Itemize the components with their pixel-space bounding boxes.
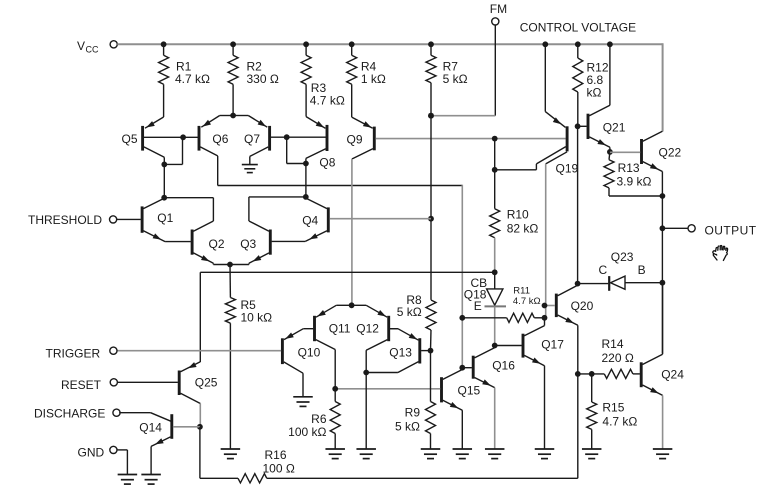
- transistor Q11: [313, 316, 316, 341]
- transistor Q7: [268, 126, 271, 151]
- svg-text:C: C: [599, 263, 608, 277]
- resistor R12 6.8 k: [577, 44, 579, 58]
- resistor R5 10 k: [229, 265, 231, 298]
- transistor Q15: [440, 377, 443, 402]
- wire FM to divider: [431, 115, 495, 117]
- svg-text:220 Ω: 220 Ω: [602, 351, 634, 365]
- svg-text:R15: R15: [602, 401, 624, 415]
- ground: [535, 448, 555, 450]
- resistor R2 330: [232, 44, 234, 55]
- svg-text:R14: R14: [602, 337, 624, 351]
- svg-text:Q5: Q5: [122, 132, 138, 146]
- transistor Q9: [373, 127, 376, 151]
- svg-text:CC: CC: [86, 45, 99, 55]
- ground: [485, 448, 505, 450]
- node OUTPUT terminal: [662, 227, 688, 229]
- transistor Q8: [326, 125, 329, 151]
- resistor R16 100: [199, 427, 201, 479]
- transistor Q24: [640, 362, 643, 387]
- svg-text:THRESHOLD: THRESHOLD: [28, 213, 102, 227]
- svg-text:Q16: Q16: [492, 359, 515, 373]
- svg-text:4.7 kΩ: 4.7 kΩ: [175, 72, 210, 86]
- svg-text:TRIGGER: TRIGGER: [46, 347, 101, 361]
- svg-text:R11: R11: [513, 286, 530, 297]
- resistor R13 3.9 k: [608, 152, 611, 160]
- ground: [293, 396, 313, 398]
- ground: [582, 448, 602, 450]
- svg-text:kΩ: kΩ: [587, 86, 602, 100]
- ground: [653, 448, 673, 450]
- svg-text:100 kΩ: 100 kΩ: [288, 425, 326, 439]
- svg-text:Q6: Q6: [212, 132, 228, 146]
- transistor Q20: [555, 294, 558, 318]
- svg-text:330 Ω: 330 Ω: [247, 72, 279, 86]
- svg-text:R13: R13: [618, 161, 640, 175]
- svg-text:100 Ω: 100 Ω: [263, 462, 295, 476]
- resistor R11 4.7 k: [459, 315, 465, 321]
- svg-text:R9: R9: [405, 405, 421, 419]
- diode Q23: [578, 283, 609, 285]
- svg-text:Q7: Q7: [244, 132, 260, 146]
- svg-text:Q9: Q9: [347, 133, 363, 147]
- wire gray net to R11/Q15: [461, 185, 463, 318]
- wire R10 bottom to Q25: [200, 271, 494, 273]
- transistor Q16: [472, 356, 475, 379]
- transistor Q10: [281, 338, 284, 364]
- svg-text:E: E: [474, 299, 482, 313]
- wire output net vertical: [661, 196, 663, 228]
- svg-text:B: B: [638, 263, 646, 277]
- ground: [118, 474, 137, 476]
- svg-text:Q24: Q24: [661, 367, 684, 381]
- svg-text:82 kΩ: 82 kΩ: [507, 222, 539, 236]
- resistor R15 4.7 k: [591, 374, 593, 402]
- resistor R10 82 k: [492, 136, 498, 142]
- svg-text:Q1: Q1: [157, 211, 173, 225]
- svg-text:Q13: Q13: [389, 346, 412, 360]
- resistor R1 4.7 k: [163, 44, 165, 55]
- node VCC terminal: [110, 41, 117, 48]
- svg-text:CONTROL VOLTAGE: CONTROL VOLTAGE: [520, 20, 636, 34]
- svg-text:GND: GND: [78, 445, 105, 459]
- transistor Q3: [269, 230, 272, 255]
- transistor Q2: [191, 230, 194, 255]
- svg-text:V: V: [77, 39, 85, 53]
- wire Q21 base to Q20 collector: [577, 126, 579, 283]
- svg-text:Q11: Q11: [329, 322, 351, 336]
- transistor Q25: [178, 371, 181, 396]
- ground: [242, 164, 258, 166]
- svg-text:Q8: Q8: [319, 156, 335, 170]
- resistor R4 1 k: [351, 44, 353, 55]
- svg-text:FM: FM: [490, 2, 507, 16]
- transistor Q21: [587, 114, 590, 139]
- resistor R7 5 k: [430, 44, 432, 55]
- svg-text:1 kΩ: 1 kΩ: [361, 72, 386, 86]
- transistor Q4: [327, 207, 330, 232]
- transistor Q17: [522, 334, 525, 358]
- svg-text:Q14: Q14: [139, 421, 162, 435]
- svg-text:Q20: Q20: [571, 299, 594, 313]
- svg-text:RESET: RESET: [61, 378, 102, 392]
- svg-text:5 kΩ: 5 kΩ: [397, 305, 422, 319]
- svg-text:4.7 kΩ: 4.7 kΩ: [310, 94, 345, 108]
- ground: [221, 448, 241, 450]
- svg-text:Q2: Q2: [209, 237, 225, 251]
- svg-text:Q15: Q15: [458, 384, 481, 398]
- svg-text:Q17: Q17: [541, 338, 564, 352]
- svg-text:3.9 kΩ: 3.9 kΩ: [617, 175, 652, 189]
- svg-text:OUTPUT: OUTPUT: [705, 223, 757, 237]
- transistor Q1: [141, 206, 144, 232]
- ground: [325, 448, 345, 450]
- svg-text:Q12: Q12: [356, 322, 379, 336]
- svg-text:4.7 kΩ: 4.7 kΩ: [513, 296, 541, 307]
- transistor Q5: [141, 126, 144, 151]
- svg-text:Q19: Q19: [556, 162, 579, 176]
- ground: [141, 474, 161, 476]
- svg-text:Q3: Q3: [240, 237, 256, 251]
- wire VCC rail: [117, 43, 662, 45]
- svg-text:R10: R10: [507, 208, 529, 222]
- resistor R6 100 k: [334, 389, 336, 402]
- resistor R3 4.7 k: [305, 44, 307, 55]
- svg-text:Q22: Q22: [659, 146, 682, 160]
- ground: [356, 448, 376, 450]
- svg-text:Q23: Q23: [611, 250, 634, 264]
- transistor Q12: [387, 316, 390, 341]
- ground: [421, 448, 441, 450]
- transistor Q19: [566, 126, 569, 151]
- svg-text:Q10: Q10: [298, 346, 321, 360]
- svg-text:Q21: Q21: [603, 121, 626, 135]
- resistor R9 5 k: [430, 351, 432, 402]
- ground: [453, 448, 473, 450]
- svg-text:Q4: Q4: [302, 214, 318, 228]
- svg-text:R16: R16: [265, 448, 287, 462]
- resistor R8 5 k: [430, 299, 432, 301]
- transistor Q13: [418, 338, 421, 363]
- transistor Q22: [640, 139, 643, 164]
- transistor Q6: [198, 126, 201, 151]
- svg-text:5 kΩ: 5 kΩ: [443, 72, 468, 86]
- transistor Q14: [170, 414, 173, 439]
- diode Q18 (CB-E): [494, 272, 496, 289]
- svg-text:DISCHARGE: DISCHARGE: [34, 406, 105, 420]
- hand cursor icon: [713, 246, 728, 261]
- svg-text:Q25: Q25: [195, 376, 218, 390]
- svg-text:5 kΩ: 5 kΩ: [395, 420, 420, 434]
- svg-text:4.7 kΩ: 4.7 kΩ: [602, 415, 637, 429]
- resistor R14 220: [589, 371, 595, 377]
- svg-text:10 kΩ: 10 kΩ: [241, 311, 273, 325]
